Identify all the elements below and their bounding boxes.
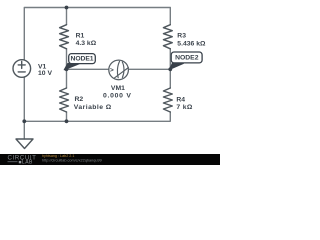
svg-text:10 V: 10 V — [38, 70, 52, 77]
svg-text:0.000 V: 0.000 V — [103, 93, 132, 100]
svg-text:http://circuitlab.com/c/x22qba: http://circuitlab.com/c/x22qbanqu99 — [42, 159, 102, 163]
svg-text:4.3 kΩ: 4.3 kΩ — [76, 40, 97, 47]
svg-text:hyhtsang : Lab2 2.1: hyhtsang : Lab2 2.1 — [42, 154, 74, 158]
svg-text:R4: R4 — [176, 96, 185, 103]
svg-text:Variable Ω: Variable Ω — [74, 104, 112, 111]
svg-text:7 kΩ: 7 kΩ — [176, 104, 192, 111]
svg-text:NODE2: NODE2 — [175, 55, 199, 62]
svg-text:R1: R1 — [76, 33, 85, 40]
svg-text:R3: R3 — [177, 33, 186, 40]
svg-text:5.436 kΩ: 5.436 kΩ — [177, 40, 206, 47]
svg-text:R2: R2 — [75, 96, 84, 103]
svg-text:>: > — [110, 67, 114, 74]
svg-text:VM1: VM1 — [111, 85, 125, 92]
svg-text:■LAB: ■LAB — [18, 160, 33, 165]
svg-text:NODE1: NODE1 — [71, 56, 94, 63]
